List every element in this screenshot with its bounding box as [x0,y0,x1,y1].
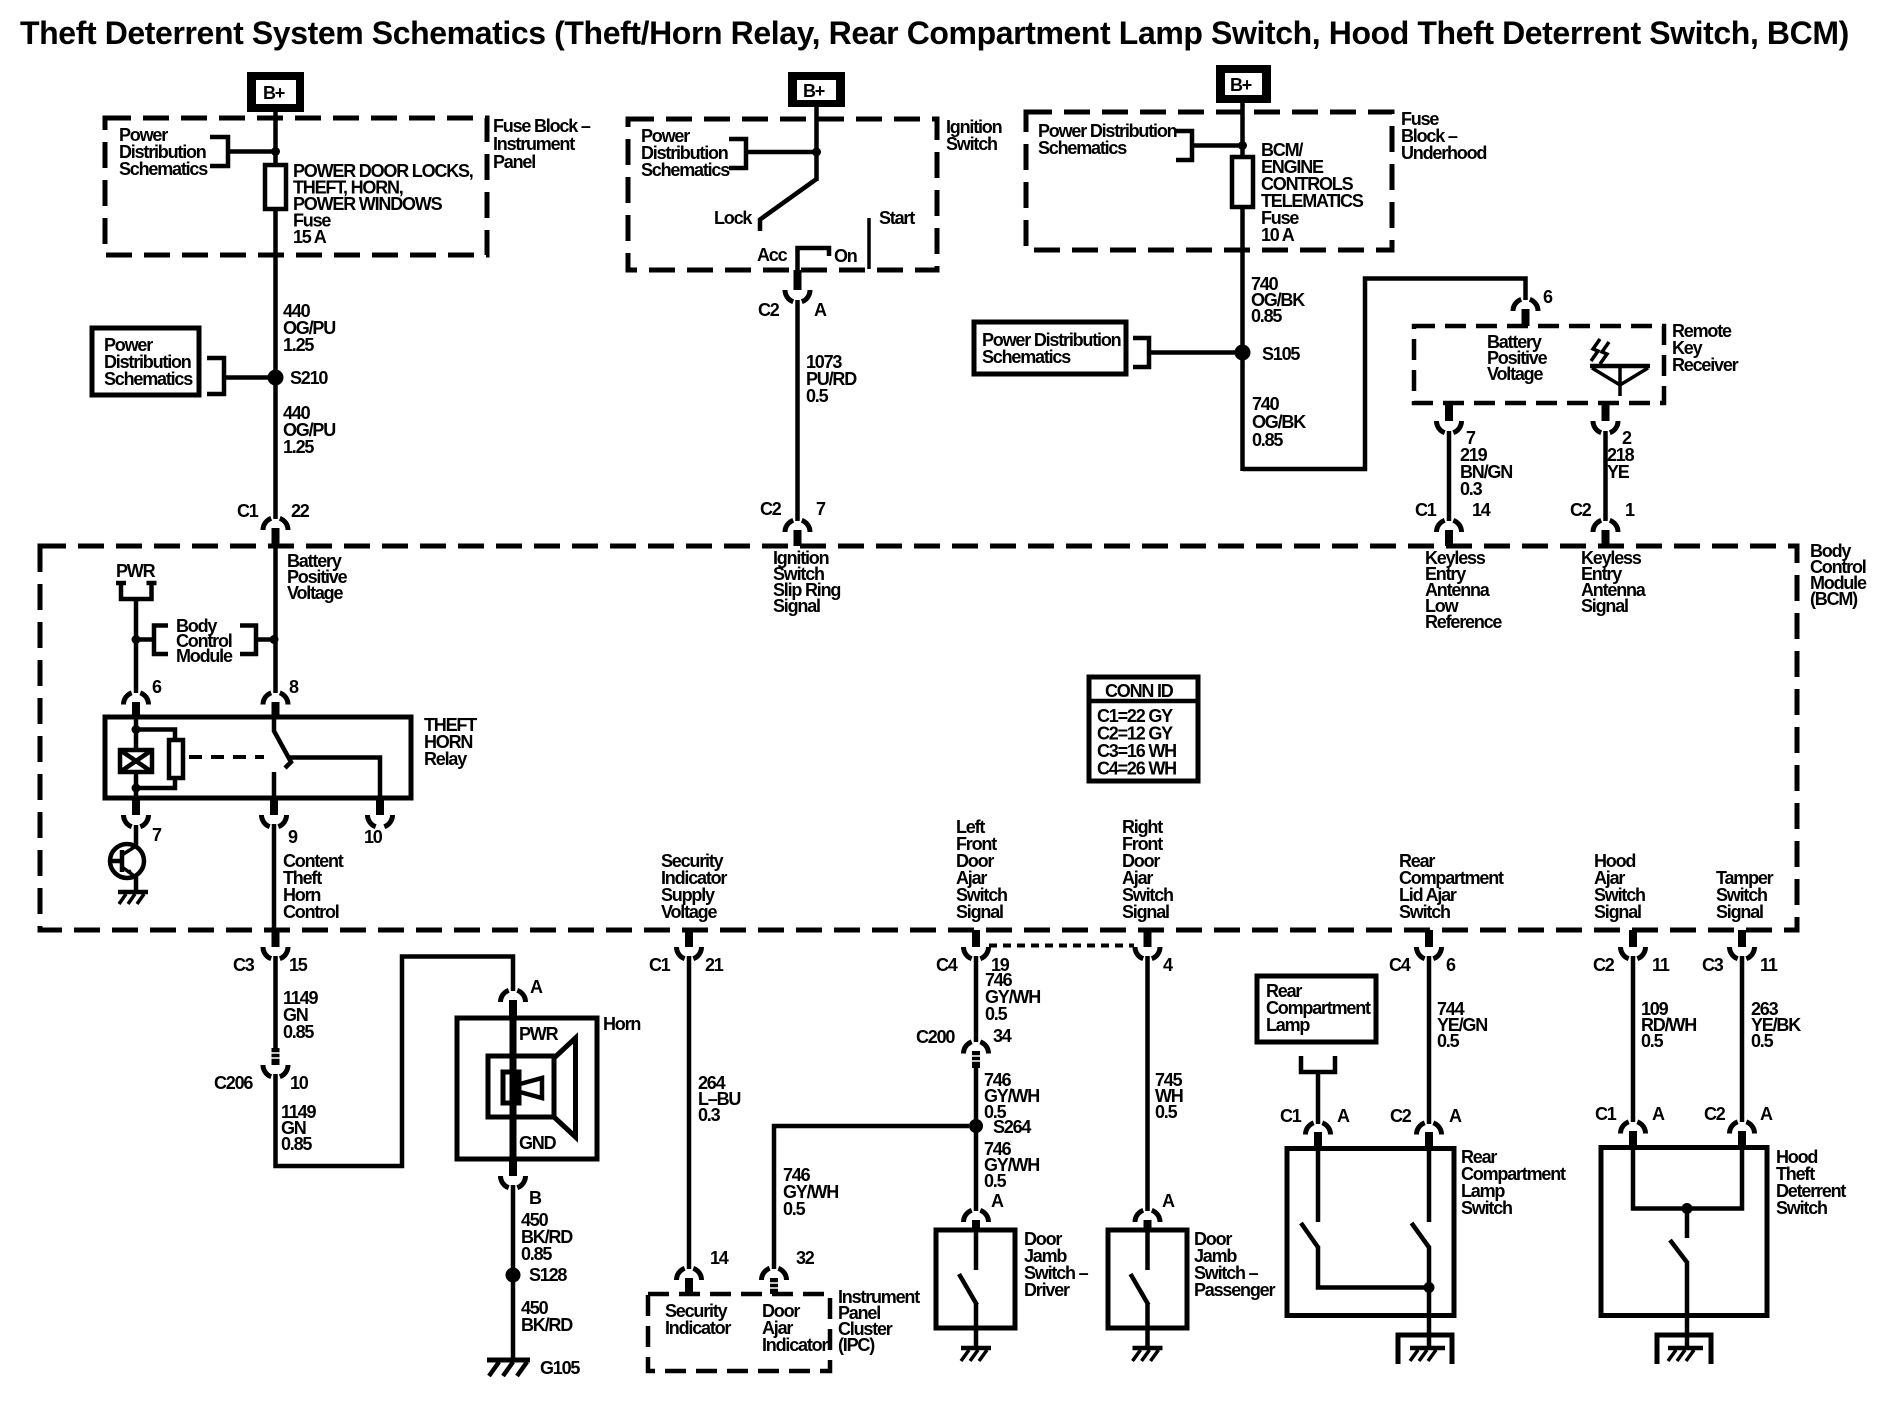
boxed ground under rear compartment lamp switch [1398,1316,1452,1364]
svg-text:A: A [1449,1106,1462,1126]
wire 1149 GN lower, elbow to horn [276,957,514,1167]
svg-text:7: 7 [152,825,162,845]
wire 109 RD/WH [1631,956,1636,1122]
wire B+ down [1240,103,1245,159]
svg-text:6: 6 [1446,955,1456,975]
relay switch contact [274,717,380,798]
receiver pin 2 connector out [1593,403,1632,448]
driver switch contact [959,1230,977,1328]
left switch contact [1301,1149,1424,1288]
ignition switch arm to Lock [760,179,817,231]
relay K1 THEFT HORN Relay box [105,717,411,798]
svg-text:10: 10 [364,827,383,847]
wire fuse to elbow [1240,207,1245,471]
svg-text:B+: B+ [1230,75,1252,95]
svg-text:C2: C2 [758,300,780,320]
bracket to S105 [1133,338,1236,367]
connector pin A into horn [501,977,544,1019]
ground under driver switch [961,1328,991,1361]
Start contact line [867,218,871,269]
svg-text:6: 6 [1543,287,1553,307]
fuse block underhood dashed box [1026,112,1392,250]
bracket to wire [729,139,813,168]
switch Hood Theft Deterrent Switch box [1601,1148,1767,1316]
inline connector C206 pin 10 [214,1048,309,1093]
connector pin 6 into relay [124,677,163,717]
hood switch contact [1670,1209,1688,1317]
receiver pin 7 connector out [1437,403,1477,448]
connector C1 pin 21 out of BCM [649,930,724,975]
svg-text:Acc: Acc [757,245,788,265]
junction dot [132,635,141,644]
connector C2 pin A out of ignition switch [758,270,827,320]
ground (chassis) under transistor [118,892,148,904]
svg-text:A: A [1337,1106,1350,1126]
svg-text:C1: C1 [649,955,671,975]
svg-text:Start: Start [879,208,915,228]
wire 219 BN/GN [1447,431,1452,521]
svg-text:C2: C2 [760,499,782,519]
svg-text:C4: C4 [1389,955,1411,975]
splice S264 [969,1119,983,1133]
svg-text:Theft Deterrent System Schemat: Theft Deterrent System Schematics (Theft… [20,15,1849,51]
svg-text:PWR: PWR [116,561,156,581]
svg-text:A: A [1652,1104,1665,1124]
wire 264 L-BU [687,956,692,1269]
ground under passenger switch [1133,1328,1163,1361]
lamp bracket [1301,1056,1335,1072]
bracket to wire [210,137,272,166]
wire elbow to remote key receiver pin 6 [1243,279,1526,470]
wire lamp to C1 A [1316,1072,1321,1124]
wire battery positive inside BCM [273,546,278,693]
instrument panel cluster dashed box [648,1294,830,1371]
svg-text:C3: C3 [233,955,255,975]
body control module bracket left [137,626,168,655]
connector C1 pin A into hood theft deterrent switch [1595,1104,1665,1148]
relay coil element [120,750,152,772]
svg-text:S264: S264 [993,1117,1031,1137]
wire 218 YE [1603,431,1608,521]
battery feed B+ symbol 2 [788,72,845,107]
svg-text:C200: C200 [916,1027,955,1047]
svg-text:C2: C2 [1593,955,1615,975]
wire pin7 to transistor [134,825,139,845]
passenger switch contact [1131,1230,1149,1328]
svg-text:C2: C2 [1390,1106,1412,1126]
svg-text:IgnitionSwitch: IgnitionSwitch [946,117,1002,154]
relay armature bar [169,740,183,778]
connector C4 pin 6 out of BCM [1389,930,1456,975]
connector pin A into driver door jamb switch [964,1191,1005,1231]
svg-text:8: 8 [289,677,299,697]
wire 1073 PU/RD [795,300,800,521]
power distribution schematics box [92,328,199,395]
svg-text:C3: C3 [1702,955,1724,975]
svg-text:S210: S210 [290,368,328,388]
right switch contact [1412,1149,1430,1317]
wire 746 GY/WH middle [974,1066,979,1211]
svg-text:B+: B+ [263,83,285,103]
svg-text:10: 10 [290,1073,309,1093]
svg-text:22: 22 [291,501,310,521]
fuse BCM/ENGINE CONTROLS 10A [1232,157,1253,207]
svg-text:Horn: Horn [603,1014,640,1034]
wire transistor to ground [134,877,139,893]
wire 450 BK/RD [511,1185,516,1360]
splice S128 [506,1268,521,1283]
wire 1149 GN upper [273,956,278,1049]
svg-text:9: 9 [288,827,298,847]
switch Door Jamb Switch Passenger box [1108,1230,1187,1328]
svg-text:A: A [814,300,827,320]
connector pin A into passenger door jamb switch [1135,1191,1175,1231]
connector C1 pin A into rear compartment lamp switch [1280,1106,1350,1149]
connector C2 pin A into rear compartment lamp switch [1390,1106,1462,1149]
bracket to S210 [207,358,268,394]
svg-text:S128: S128 [529,1265,567,1285]
switch Rear Compartment Lamp Switch box [1287,1149,1454,1316]
hood switch internal wires [1633,1148,1742,1209]
wire B+ to fuse [273,112,278,165]
wire fuse to C1 22 [273,209,278,519]
svg-text:G105: G105 [540,1358,580,1378]
bracket to wire [1176,131,1239,160]
junction dot [270,635,279,644]
svg-text:On: On [834,246,857,266]
svg-text:B+: B+ [803,81,825,101]
wire 746 GY/WH upper [974,956,979,1042]
remote key receiver dashed box [1414,326,1664,403]
svg-text:C4: C4 [936,955,958,975]
connector pin 9 out of relay [262,798,299,847]
wire relay pin 9 down inside BCM [272,824,277,932]
connector C2 pin 1 into BCM [1570,500,1635,546]
connector C2 pin A into hood theft deterrent switch [1704,1104,1773,1148]
lamp Rear Compartment Lamp box [1257,976,1376,1042]
svg-text:14: 14 [1472,500,1491,520]
svg-text:B: B [529,1188,542,1208]
connector C1 pin 22 into BCM [237,501,310,546]
svg-text:15: 15 [289,955,308,975]
connector C2 pin 11 out of BCM [1593,930,1670,975]
wire 744 YE/GN [1427,956,1432,1124]
svg-text:14: 14 [710,1248,729,1268]
connector pin 14 into IPC [677,1248,729,1294]
svg-text:32: 32 [796,1248,815,1268]
svg-text:21: 21 [705,955,724,975]
svg-text:7: 7 [816,499,826,519]
Acc / On contact [798,248,830,270]
splice S210 [268,370,284,386]
svg-text:C1: C1 [1280,1106,1302,1126]
svg-text:CONN ID: CONN ID [1105,681,1174,701]
svg-text:4: 4 [1163,955,1173,975]
svg-text:GND: GND [519,1133,557,1153]
relay coil wire [134,717,139,750]
dashed connector link line [989,944,1134,948]
junction dot [812,148,821,157]
svg-text:A: A [991,1191,1004,1211]
svg-text:C2: C2 [1570,500,1592,520]
svg-text:C1: C1 [1415,500,1437,520]
connector C1 pin 14 into BCM [1415,500,1491,546]
ignition switch dashed box [628,119,937,270]
svg-text:A: A [530,977,543,997]
junction dot [1238,141,1247,150]
svg-text:11: 11 [1760,955,1778,975]
svg-text:C2: C2 [1704,1104,1726,1124]
wire door ajar indicator to S264 [774,1126,969,1269]
battery feed B+ symbol 3 [1216,65,1271,103]
junction dot [1682,1203,1693,1214]
ground G105 [487,1358,580,1378]
svg-text:A: A [1162,1191,1175,1211]
power distribution schematics box [974,322,1126,374]
wire PWR down [134,599,139,693]
dashed actuation line [189,755,264,759]
wire 745 WH [1145,956,1150,1211]
svg-text:Lock: Lock [714,208,753,228]
connector pin 7 out of relay [124,798,163,845]
inline connector C200 pin 34 [916,1026,1012,1068]
connector C2 pin 7 into BCM [760,499,826,546]
junction dot [271,147,280,156]
connector C4 pin 19 out of BCM [936,930,1010,975]
connector C3 pin 11 out of BCM [1702,930,1778,975]
svg-text:C1: C1 [1595,1104,1617,1124]
fuse F1 15A [265,165,286,209]
svg-text:S105: S105 [1262,344,1300,364]
battery feed B+ symbol 1 [247,72,304,112]
connector C3 pin 15 out of BCM [233,930,308,975]
svg-text:6: 6 [152,677,162,697]
CONN ID table [1089,677,1198,781]
fuse block instrument panel (dashed box) [105,118,487,255]
svg-text:SecurityIndicator: SecurityIndicator [665,1301,731,1338]
svg-text:1: 1 [1625,500,1635,520]
svg-text:C206: C206 [214,1073,253,1093]
svg-text:PWR: PWR [519,1024,559,1044]
svg-text:11: 11 [1652,955,1670,975]
relay armature loop [136,730,175,789]
svg-text:34: 34 [993,1026,1012,1046]
svg-text:BatteryPositiveVoltage: BatteryPositiveVoltage [1487,332,1548,384]
connector pin B out of horn [501,1159,543,1208]
body control module dashed box [40,546,1797,930]
connector pin 32 into IPC [762,1248,815,1294]
horn internal wire [510,1018,517,1159]
boxed ground under hood theft deterrent switch [1657,1316,1711,1364]
transistor Q1 driver [110,844,144,878]
body control module bracket right [240,626,273,655]
wire 263 YE/BK [1740,956,1745,1122]
connector pin 4 out of BCM [1135,930,1173,975]
connector pin 8 into relay [263,677,299,717]
svg-text:BatteryPositiveVoltage: BatteryPositiveVoltage [287,551,348,603]
horn assembly box [457,1018,597,1159]
antenna symbol [1590,339,1650,396]
svg-text:A: A [1760,1104,1773,1124]
splice S105 [1235,345,1251,361]
connector pin 10 out of relay [364,798,393,847]
junction dot [1424,1282,1435,1293]
svg-text:C1: C1 [237,501,259,521]
switch Door Jamb Switch Driver box [936,1230,1015,1328]
svg-text:C1=22 GYC2=12 GYC3=16 WHC4=26: C1=22 GYC2=12 GYC3=16 WHC4=26 WH [1097,706,1176,779]
connector pin 6 into receiver [1513,287,1553,326]
wire B+ down [814,107,819,181]
horn speaker symbol [488,1038,576,1137]
